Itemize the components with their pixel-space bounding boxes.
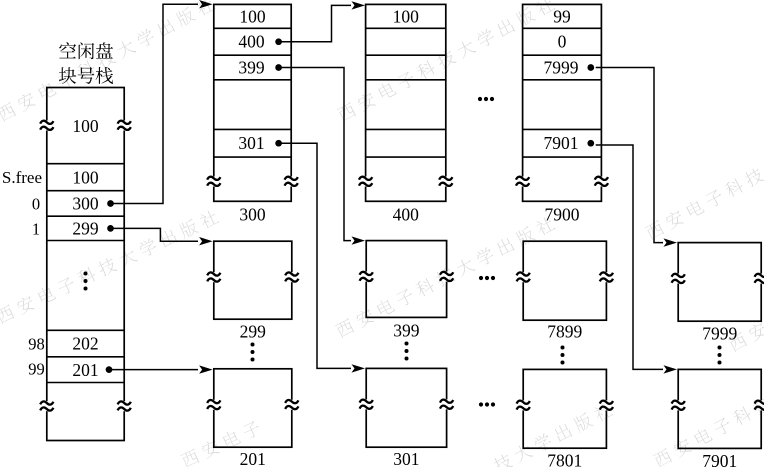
svg-text:300: 300 [72, 194, 99, 214]
svg-text:202: 202 [72, 334, 98, 354]
svg-text:0: 0 [32, 195, 40, 214]
svg-text:1: 1 [32, 220, 40, 239]
svg-text:98: 98 [28, 335, 45, 354]
svg-text:7999: 7999 [702, 324, 737, 344]
svg-text:99: 99 [28, 360, 45, 379]
svg-text:0: 0 [558, 32, 567, 52]
svg-text:100: 100 [72, 167, 99, 187]
svg-text:7901: 7901 [702, 451, 737, 467]
svg-text:301: 301 [238, 133, 264, 153]
svg-text:399: 399 [393, 321, 420, 341]
svg-text:7901: 7901 [544, 133, 579, 153]
svg-text:7801: 7801 [547, 451, 582, 467]
svg-text:201: 201 [240, 449, 266, 467]
svg-text:7900: 7900 [545, 205, 580, 225]
svg-text:100: 100 [393, 6, 420, 26]
svg-text:100: 100 [72, 116, 99, 136]
svg-text:400: 400 [238, 32, 265, 52]
svg-text:100: 100 [239, 6, 266, 26]
svg-text:99: 99 [553, 6, 571, 26]
svg-text:7899: 7899 [547, 322, 582, 342]
svg-text:300: 300 [239, 205, 266, 225]
svg-text:399: 399 [238, 58, 265, 78]
svg-text:S.free: S.free [2, 168, 42, 187]
svg-text:301: 301 [393, 449, 419, 467]
svg-text:400: 400 [393, 205, 420, 225]
svg-text:299: 299 [72, 219, 99, 239]
svg-text:201: 201 [72, 360, 98, 380]
svg-text:299: 299 [240, 322, 267, 342]
svg-text:7999: 7999 [544, 58, 579, 78]
